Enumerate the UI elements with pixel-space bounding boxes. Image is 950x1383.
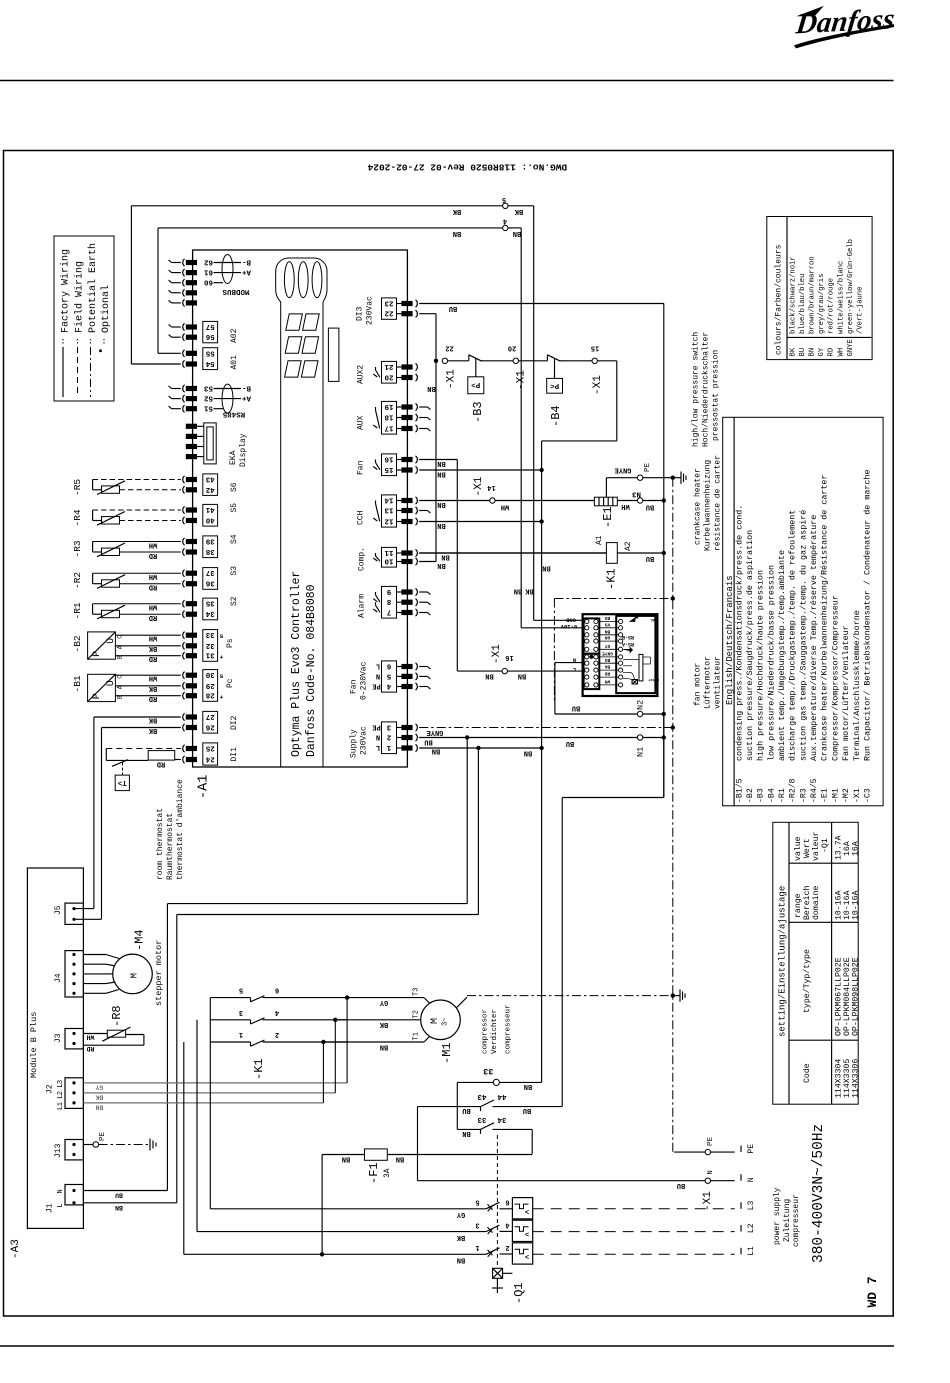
- svg-text:BU: BU: [605, 615, 611, 621]
- colours table: [767, 217, 872, 360]
- terminal numbers S2: [203, 598, 218, 620]
- svg-text:L1 L2 L3: L1 L2 L3: [57, 1080, 65, 1110]
- svg-text:PE: PE: [707, 1136, 715, 1146]
- svg-text:34: 34: [205, 609, 215, 617]
- svg-text:low pressure/Niederdruck/basse: low pressure/Niederdruck/basse pression: [766, 565, 776, 761]
- svg-text:10-16A: 10-16A: [852, 890, 861, 920]
- terminal numbers Fan230: [382, 661, 397, 692]
- stub left row: [172, 302, 181, 304]
- svg-text:B: B: [117, 695, 124, 699]
- wires to motor M1: [347, 997, 424, 999]
- svg-text:62: 62: [204, 258, 214, 266]
- svg-text:GY: GY: [456, 1210, 465, 1218]
- svg-text:BN: BN: [432, 747, 440, 755]
- stub left 53: [172, 388, 181, 390]
- wire B4 to BN bus: [597, 360, 616, 362]
- svg-text:BN: BN: [437, 561, 445, 569]
- contact AUX: [375, 407, 377, 410]
- terminal block right 12: [401, 519, 412, 524]
- terminal X1-N3: [637, 498, 642, 503]
- svg-text:-A1: -A1: [197, 775, 212, 799]
- svg-text:résistance de carter: résistance de carter: [714, 455, 723, 551]
- terminal block left row: [186, 444, 197, 449]
- terminal block right 18: [401, 415, 412, 420]
- display knob 2: [298, 262, 308, 298]
- junction X1-22: [434, 359, 438, 363]
- stub right 5: [419, 675, 427, 677]
- svg-text:BN: BN: [96, 1103, 104, 1110]
- svg-text:BK: BK: [148, 726, 157, 734]
- svg-text:-M1: -M1: [831, 788, 840, 803]
- svg-text:-X1: -X1: [516, 370, 528, 390]
- svg-text:14: 14: [384, 496, 394, 504]
- svg-text:114X3306: 114X3306: [852, 1059, 861, 1098]
- svg-text:N2: N2: [636, 700, 646, 710]
- svg-text:230Vac: 230Vac: [360, 726, 369, 755]
- svg-text:39: 39: [205, 537, 215, 545]
- compressor motor M1: [421, 1000, 461, 1040]
- svg-text:BN: BN: [524, 749, 532, 757]
- connector J2: [65, 1078, 83, 1109]
- svg-text:crankcase heater: crankcase heater: [694, 468, 703, 545]
- svg-text:RS-B: RS-B: [622, 634, 634, 640]
- svg-text:green-yellow/Grün-Gelb: green-yellow/Grün-Gelb: [847, 239, 855, 334]
- svg-text:Crankcase heater/Kurbelwannenh: Crankcase heater/Kurbelwannenheizung/Rés…: [820, 475, 830, 761]
- pressure switch B4: [519, 360, 548, 362]
- terminal block left 57: [186, 324, 197, 329]
- terminal numbers A01: [203, 348, 218, 370]
- svg-text:BU: BU: [449, 304, 457, 312]
- wire X1-16 line: [457, 670, 502, 672]
- svg-text:RD: RD: [149, 551, 157, 559]
- fan box PE boundary: [554, 598, 672, 600]
- terminal block right 19: [401, 404, 412, 409]
- terminal numbers AUX2: [382, 361, 397, 383]
- svg-text:BN: BN: [342, 1155, 350, 1163]
- svg-text:AUX2: AUX2: [357, 365, 366, 384]
- svg-text:BU: BU: [799, 348, 807, 357]
- display knob 1: [284, 262, 294, 298]
- svg-text:380-400V3N~/50Hz: 380-400V3N~/50Hz: [811, 1124, 827, 1263]
- svg-text:pressostat pression: pressostat pression: [712, 350, 721, 441]
- terminal block left 28: [186, 693, 197, 698]
- svg-text:5: 5: [386, 671, 391, 679]
- junction ground M1: [671, 993, 675, 997]
- svg-text:black/schwarz/noir: black/schwarz/noir: [790, 256, 798, 334]
- stub left 57: [172, 326, 181, 328]
- svg-text:40: 40: [205, 516, 215, 524]
- svg-text:Supply: Supply: [350, 729, 359, 758]
- svg-text:L1: L1: [747, 1246, 756, 1256]
- svg-text:32: 32: [205, 641, 215, 649]
- wire DI3-22 to X1-22: [419, 313, 436, 315]
- svg-text:-B2: -B2: [72, 635, 83, 652]
- svg-text:-B4: -B4: [767, 788, 776, 803]
- svg-text:compresseur: compresseur: [504, 1004, 512, 1054]
- svg-text:-F1: -F1: [367, 1162, 381, 1184]
- terminal block left row: [186, 424, 197, 429]
- svg-text:BN: BN: [437, 459, 445, 467]
- terminal numbers S3: [203, 568, 218, 590]
- svg-text:43: 43: [205, 475, 215, 483]
- terminal X1-15: [592, 358, 597, 363]
- svg-text:37: 37: [206, 568, 215, 576]
- svg-text:20: 20: [508, 344, 516, 352]
- svg-text:18: 18: [384, 413, 394, 421]
- svg-text:BU: BU: [523, 1106, 531, 1114]
- svg-text:Ps: Ps: [226, 638, 235, 648]
- breaker Q1: [210, 1208, 486, 1210]
- terminal block left 54: [186, 361, 197, 366]
- svg-text:WH: WH: [87, 1033, 95, 1040]
- junction coil bus: [662, 551, 666, 555]
- transducer B1: [88, 674, 116, 701]
- svg-text:domaine: domaine: [811, 886, 821, 920]
- terminal block left 60: [186, 280, 197, 285]
- terminal block right 1: [401, 745, 412, 750]
- svg-text:S4: S4: [230, 534, 239, 544]
- svg-text:6: 6: [275, 986, 279, 994]
- terminal block left 37: [186, 571, 197, 576]
- Q1 output dashed L3: [533, 1253, 735, 1255]
- svg-text:RD: RD: [149, 694, 157, 702]
- terminal X1-14: [490, 498, 495, 503]
- terminal numbers Fan: [382, 454, 397, 476]
- svg-text:S6: S6: [230, 482, 239, 492]
- svg-text:22: 22: [445, 344, 453, 352]
- svg-text:Hoch/Niederdruckschalter: Hoch/Niederdruckschalter: [702, 332, 711, 447]
- terminal block right 16: [401, 457, 412, 462]
- terminal block right 2: [401, 735, 412, 740]
- svg-text:A02: A02: [230, 328, 239, 343]
- svg-text:RD: RD: [149, 654, 157, 662]
- legend box: [54, 236, 114, 401]
- svg-text:4: 4: [503, 217, 507, 225]
- display digit segment 6: [301, 361, 318, 377]
- svg-text:GY: GY: [379, 998, 388, 1006]
- Q1 handle: [493, 1268, 503, 1278]
- svg-text:DI3: DI3: [356, 306, 365, 321]
- svg-text:-X1: -X1: [446, 369, 458, 389]
- svg-text:T2: T2: [413, 1010, 421, 1018]
- svg-text:BN: BN: [524, 1082, 532, 1090]
- svg-text:suction gas temp./Sauggastemp.: suction gas temp./Sauggastemp./temp. du …: [798, 510, 808, 761]
- terminal block left 62: [186, 260, 197, 265]
- svg-text:51: 51: [204, 404, 214, 412]
- svg-text:BK: BK: [452, 207, 461, 215]
- terminal block left row: [186, 454, 197, 459]
- svg-text:BN: BN: [605, 628, 611, 634]
- fan motor box M2: [583, 614, 658, 696]
- svg-text:Danfoss Code-No. 084B8080: Danfoss Code-No. 084B8080: [305, 584, 318, 757]
- svg-text:Module B Plus: Module B Plus: [29, 1012, 39, 1078]
- svg-text:-R4: -R4: [72, 509, 83, 526]
- svg-text:BU: BU: [572, 704, 580, 712]
- svg-text:34: 34: [497, 1115, 507, 1123]
- svg-text:BK: BK: [605, 664, 611, 670]
- svg-text:25: 25: [205, 744, 215, 752]
- svg-text:BK: BK: [514, 207, 523, 215]
- terminal numbers A02: [203, 321, 218, 342]
- terminal block left 32: [186, 643, 197, 648]
- Q1 output dashed L1: [533, 1208, 735, 1210]
- svg-text:Fan motor/Lüfter/Venilateur: Fan motor/Lüfter/Venilateur: [841, 625, 851, 761]
- svg-text:17: 17: [384, 424, 393, 432]
- contact Comp: [375, 553, 377, 556]
- svg-text:-R2: -R2: [72, 572, 83, 589]
- terminal numbers DI3: [382, 298, 397, 319]
- svg-text:J13: J13: [54, 1143, 63, 1158]
- svg-text:-B2: -B2: [746, 788, 755, 803]
- svg-text:7: 7: [387, 608, 392, 616]
- fan box arrows: [630, 615, 638, 621]
- svg-text:condensing press./Kondensation: condensing press./Kondensationsdruck/pre…: [734, 505, 744, 761]
- svg-text:power supply: power supply: [773, 1187, 782, 1245]
- svg-text:blue/blau/bleu: blue/blau/bleu: [799, 274, 807, 334]
- svg-text:B-: B-: [242, 258, 251, 266]
- svg-text:-X1: -X1: [702, 1191, 714, 1211]
- svg-text:2: 2: [505, 1243, 509, 1251]
- svg-text:A: A: [117, 645, 124, 649]
- svg-text:-Q1: -Q1: [512, 1282, 526, 1304]
- svg-text:>: >: [525, 1206, 529, 1214]
- svg-text:WH: WH: [149, 674, 157, 682]
- terminal numbers DI2: [203, 711, 218, 733]
- BN bus vertical: [541, 441, 543, 1083]
- svg-text:BN: BN: [453, 229, 461, 237]
- svg-text:3: 3: [239, 1008, 243, 1016]
- pressure switch B3: [448, 360, 469, 362]
- footer rule: [0, 1345, 894, 1347]
- PE bus dash-dot: [672, 478, 674, 1152]
- junction N3 bus: [662, 498, 666, 502]
- svg-text:BK: BK: [148, 716, 157, 724]
- svg-text:RD: RD: [87, 1045, 95, 1052]
- svg-text:T1: T1: [413, 1032, 421, 1040]
- svg-text:Code: Code: [802, 1063, 812, 1083]
- svg-text:M: M: [430, 1018, 441, 1024]
- junction N2 bus: [662, 712, 666, 716]
- terminal X1-22: [442, 358, 447, 363]
- motor PE: [456, 997, 467, 1008]
- svg-text:L: L: [376, 743, 380, 751]
- svg-text:Lüftermotor: Lüftermotor: [704, 656, 713, 709]
- terminal block right 6: [401, 664, 412, 669]
- stub right 13: [419, 510, 427, 512]
- svg-text:A+: A+: [242, 268, 252, 276]
- wire cch12 to bus: [419, 521, 541, 523]
- svg-text:1: 1: [475, 1243, 479, 1251]
- svg-text:2: 2: [386, 733, 391, 741]
- svg-text:-R2/8: -R2/8: [788, 778, 798, 803]
- terminal numbers Alarm: [382, 586, 397, 618]
- thermistor R8: [83, 1033, 107, 1035]
- svg-text:U: U: [106, 680, 117, 686]
- svg-text:-X1: -X1: [491, 644, 503, 664]
- svg-text:Potential Earth: Potential Earth: [87, 243, 99, 333]
- svg-text:22: 22: [384, 309, 394, 317]
- svg-text:57: 57: [206, 322, 215, 330]
- svg-text:-B3: -B3: [471, 401, 485, 423]
- svg-text:PE: PE: [644, 462, 652, 472]
- MODBUS port symbol: [222, 255, 233, 284]
- terminal block right 11: [401, 550, 412, 555]
- fan box wires in: [555, 662, 584, 664]
- earth J13: [83, 1144, 93, 1146]
- svg-text:BU: BU: [605, 657, 611, 663]
- svg-text:GND: GND: [565, 617, 576, 624]
- svg-text:compresseur: compresseur: [792, 1194, 801, 1247]
- svg-text:-R8: -R8: [110, 1005, 124, 1027]
- terminal block right 21: [401, 364, 412, 369]
- junction PE top: [671, 476, 675, 480]
- svg-text:BN: BN: [396, 1155, 404, 1163]
- RS485 port symbol: [222, 384, 233, 413]
- terminal X1-N1: [637, 735, 642, 740]
- svg-text:Zuleitung: Zuleitung: [783, 1199, 792, 1242]
- wire supply PE GNYE: [419, 727, 673, 729]
- svg-text:J5: J5: [54, 905, 63, 915]
- svg-text:Raumthermostat: Raumthermostat: [166, 813, 175, 880]
- svg-text:WD 7: WD 7: [865, 1276, 880, 1307]
- stub left 52: [172, 398, 181, 400]
- stub right 19: [419, 406, 427, 408]
- svg-text:WH: WH: [605, 679, 611, 685]
- svg-text:BN: BN: [380, 1043, 388, 1051]
- svg-text:B-: B-: [242, 384, 251, 392]
- svg-text:WH: WH: [149, 603, 157, 611]
- svg-text:4: 4: [505, 1220, 509, 1228]
- svg-text:RD: RD: [149, 613, 157, 621]
- svg-text:10: 10: [384, 557, 394, 565]
- svg-text:Field Wiring: Field Wiring: [74, 261, 86, 333]
- svg-text:CCH: CCH: [357, 510, 366, 525]
- terminal X1-20: [513, 358, 518, 363]
- svg-text:L2: L2: [747, 1223, 756, 1233]
- svg-text:N: N: [707, 1170, 715, 1174]
- svg-text:GNYE: GNYE: [602, 651, 613, 657]
- svg-text:P<: P<: [550, 381, 560, 389]
- svg-text:BN: BN: [485, 672, 493, 680]
- stub right 6: [419, 666, 427, 668]
- svg-text:-M2: -M2: [842, 788, 851, 803]
- wire L loop to J1: [477, 748, 479, 915]
- svg-text:EKA: EKA: [229, 450, 238, 465]
- svg-text:ambient temp./Umgebungstemp./t: ambient temp./Umgebungstemp./temp.ambian…: [777, 550, 787, 761]
- svg-text:RS-A: RS-A: [622, 641, 634, 647]
- svg-text:RD: RD: [149, 583, 157, 591]
- terminal block left 43: [186, 477, 197, 482]
- svg-text:26: 26: [205, 723, 215, 731]
- svg-text:-Q1: -Q1: [821, 838, 830, 853]
- svg-text:GNYE: GNYE: [847, 339, 855, 356]
- fan box inner unit: [616, 616, 655, 693]
- svg-text:BK: BK: [148, 684, 157, 692]
- ground symbol heater: [673, 477, 681, 479]
- svg-text:-R3: -R3: [72, 540, 83, 557]
- svg-text:PE: PE: [372, 682, 380, 690]
- wire BU down right side: [663, 304, 665, 502]
- wire A01-54 loop to X1-5: [131, 363, 180, 365]
- stub left 56: [172, 336, 181, 338]
- stub right 8: [419, 601, 427, 603]
- svg-text:BK: BK: [525, 587, 534, 595]
- svg-text:35: 35: [205, 599, 215, 607]
- svg-text:2: 2: [275, 1030, 279, 1038]
- svg-text:4: 4: [386, 682, 391, 690]
- svg-text:A+: A+: [242, 394, 252, 402]
- svg-text::: :: [102, 336, 107, 345]
- svg-text:36: 36: [205, 579, 215, 587]
- legend factory wiring: [62, 347, 64, 397]
- svg-text:Kurbelwannenheizung: Kurbelwannenheizung: [704, 460, 713, 551]
- svg-text:DI2: DI2: [230, 715, 239, 730]
- junction N1 bus: [662, 735, 666, 739]
- controller display bezel: [276, 258, 327, 767]
- svg-text:s: s: [219, 632, 223, 639]
- svg-text:19: 19: [384, 402, 394, 410]
- svg-text:P: P: [92, 651, 103, 657]
- svg-text:M: M: [130, 973, 140, 978]
- svg-text:16: 16: [384, 455, 394, 463]
- terminal block right 13: [401, 508, 412, 513]
- svg-text:GNYE: GNYE: [427, 728, 444, 736]
- terminal numbers S5: [203, 504, 218, 526]
- fan connector lower: [584, 654, 600, 689]
- svg-text:61: 61: [204, 268, 214, 276]
- svg-text:BU: BU: [566, 739, 574, 747]
- svg-text:5: 5: [475, 1198, 479, 1206]
- svg-text:room thermostat: room thermostat: [156, 808, 165, 880]
- svg-text:16: 16: [505, 653, 513, 661]
- svg-text:J1: J1: [46, 1203, 55, 1213]
- svg-text:S5: S5: [230, 503, 239, 513]
- K1 coil: [606, 543, 617, 564]
- svg-text:WH: WH: [621, 502, 629, 510]
- svg-text:L3: L3: [747, 1200, 756, 1210]
- svg-text:stepper motor: stepper motor: [154, 940, 164, 1006]
- room thermostat: [106, 748, 181, 750]
- svg-text:Pc: Pc: [226, 678, 235, 688]
- svg-text:range: range: [794, 893, 803, 918]
- sensor R3: [93, 541, 181, 543]
- wires J1: [83, 1190, 167, 1192]
- terminal block left 39: [186, 539, 197, 544]
- terminal numbers Comp: [382, 547, 397, 567]
- junction PE supply: [671, 725, 675, 729]
- svg-text:WH: WH: [149, 572, 157, 580]
- svg-text::: :: [61, 336, 66, 345]
- svg-text:MODBUS: MODBUS: [222, 287, 250, 295]
- header rule: [0, 80, 894, 82]
- wire DI2-26: [102, 727, 181, 729]
- terminal X1-33: [493, 1079, 499, 1085]
- terminal block right 3: [401, 725, 412, 730]
- terminal block right 9: [401, 589, 412, 594]
- svg-text:24: 24: [205, 755, 215, 763]
- svg-text:Fan: Fan: [357, 460, 366, 475]
- svg-text:Compressor/Kompressor/Compress: Compressor/Kompressor/Compresseur: [830, 595, 840, 761]
- svg-text:30: 30: [205, 670, 215, 678]
- stub right 17: [419, 428, 427, 430]
- svg-text:15: 15: [384, 465, 394, 473]
- svg-text:-K1: -K1: [252, 1058, 266, 1080]
- svg-text:RD: RD: [605, 671, 611, 677]
- terminal X1-N: [705, 1178, 710, 1183]
- wire X1-5 to fan box BK: [508, 205, 534, 207]
- svg-text:GY: GY: [818, 347, 826, 356]
- terminal block left 25: [186, 746, 197, 751]
